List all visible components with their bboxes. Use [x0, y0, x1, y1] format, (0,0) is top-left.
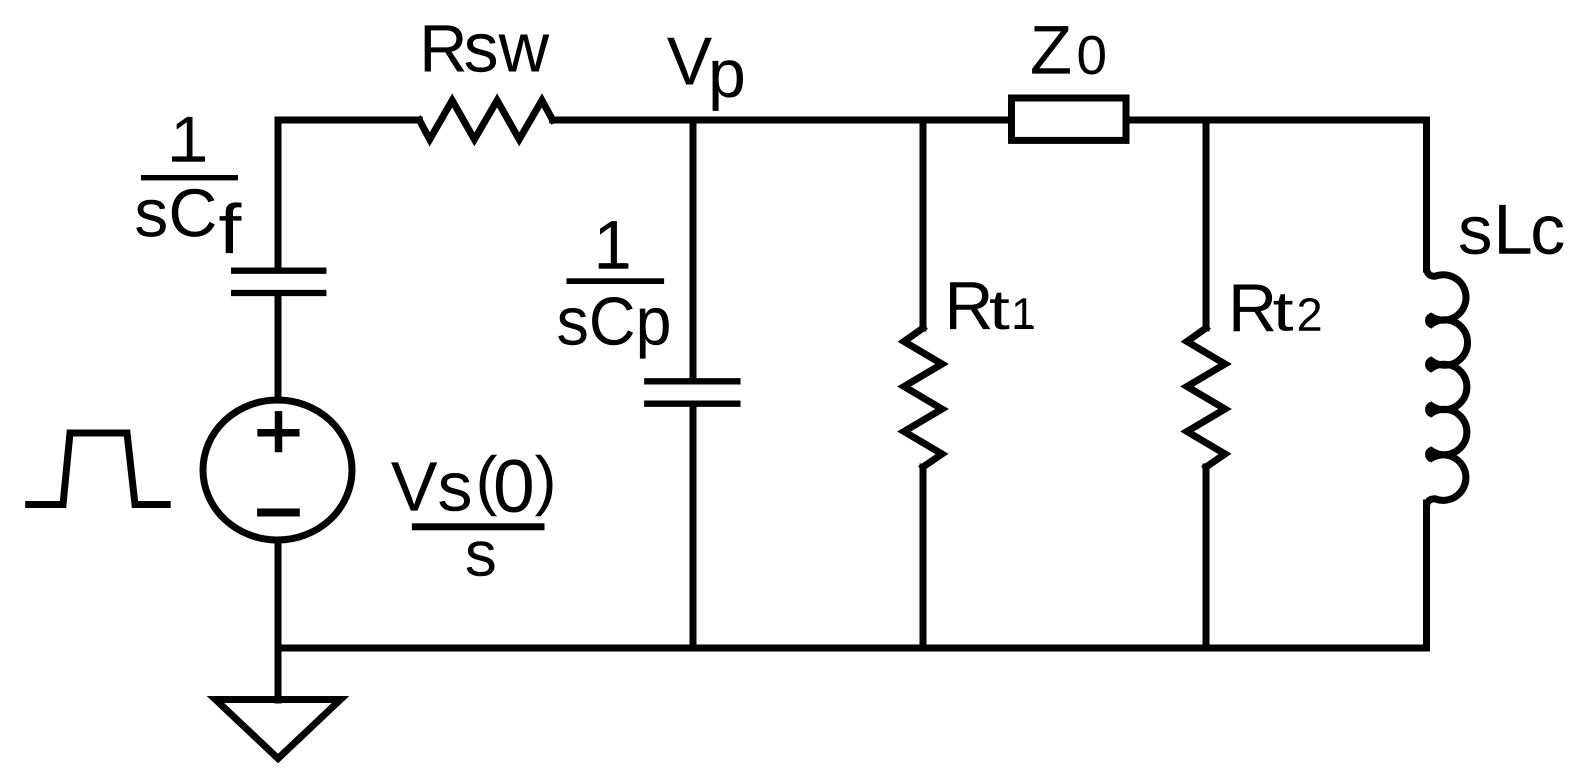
label sLc "c" [1533, 216, 1563, 254]
node label Vp "p" [712, 60, 743, 111]
wire ground stub [275, 648, 282, 700]
node label Vp "V" [667, 38, 712, 85]
label RSW "sw" [466, 34, 550, 72]
wire capacitor Cf to source [275, 296, 282, 400]
label sLc "L" [1499, 205, 1530, 254]
wire source to bottom rail [275, 540, 282, 648]
label Rt1 "1" [1015, 298, 1034, 329]
label Vs(0)/s ")" [535, 455, 553, 517]
voltage source Vs circle [203, 400, 352, 540]
resistor Rt2 [1187, 328, 1225, 467]
wire bottom rail [278, 645, 1427, 652]
label 1/sCf denominator "sC" [136, 189, 215, 237]
inductor sLc [1427, 264, 1468, 507]
label RSW "R" [425, 25, 465, 71]
wire inductor branch upper [1423, 120, 1430, 269]
wire Rt2 to bottom rail [1203, 467, 1210, 648]
label Rt2 "t" [1274, 294, 1293, 331]
label 1/sCp denominator "sCp" [558, 297, 669, 359]
label Vs(0)/s "(" [480, 455, 498, 517]
label 1/sCf subscript "f" [220, 202, 242, 253]
label Vs(0)/s denominator "s" [467, 541, 495, 576]
wire inductor to bottom rail [1423, 503, 1430, 648]
label Vs(0)/s "0" [496, 459, 532, 512]
wire top rail left segment [278, 117, 419, 124]
capacitor 1/sCf [234, 271, 323, 293]
label Rt2 "R" [1234, 285, 1274, 332]
label 1/sCp numerator "1" [599, 221, 629, 269]
wire top rail right segment (through Rt2 tap) [1130, 117, 1427, 124]
label Rt2 "2" [1299, 298, 1320, 331]
label Rt1 "R" [950, 282, 990, 329]
wire Rt2 branch upper [1203, 120, 1210, 328]
wire left branch upper [275, 120, 282, 268]
label Z0 "0" [1079, 36, 1105, 75]
label Z0 "Z" [1032, 26, 1070, 74]
label Vs(0)/s "Vs" [391, 462, 470, 511]
pulse waveform symbol [29, 433, 168, 505]
wire Rt1 to bottom rail [920, 467, 927, 648]
label 1/sCf numerator "1" [175, 117, 203, 162]
impedance Z0 box [1012, 98, 1127, 140]
wire node Vp branch upper [690, 120, 697, 378]
resistor Rt1 [904, 328, 942, 467]
wire Rt1 branch upper [920, 120, 927, 328]
minus sign [261, 509, 296, 517]
label 1/sCf fraction bar [141, 175, 238, 180]
label 1/sCp fraction bar [567, 278, 665, 284]
label Vs(0)/s fraction bar [412, 523, 545, 530]
capacitor 1/sCp [647, 381, 737, 403]
wire top rail middle segment (through node Vp and Rt1 tap) [553, 117, 1008, 124]
label sLc "s" [1460, 217, 1490, 255]
label Rt1 "t" [990, 293, 1009, 330]
ground [216, 700, 341, 759]
wire capacitor Cp to bottom rail [690, 407, 697, 648]
resistor RSW [419, 100, 552, 139]
plus sign [261, 415, 296, 449]
